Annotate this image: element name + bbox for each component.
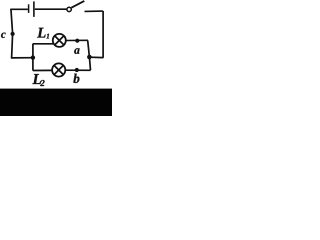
label L2 bbox=[32, 74, 41, 84]
label a bbox=[74, 48, 79, 54]
wire left vertical bbox=[11, 9, 13, 59]
wire lamp L2 to node b bbox=[66, 69, 91, 71]
lamp L1 bbox=[53, 34, 66, 47]
wire top-left horizontal bbox=[11, 8, 28, 10]
wire switch contact to top-right corner bbox=[85, 10, 103, 12]
node junction left bbox=[31, 55, 35, 59]
wire to lamp L2 bbox=[33, 69, 52, 71]
wire junction column vertical bbox=[32, 44, 34, 71]
battery cell tall plate bbox=[33, 1, 35, 17]
wire bottom-left horizontal bbox=[11, 57, 33, 59]
wire battery to switch bbox=[35, 8, 67, 10]
node b bbox=[75, 68, 79, 72]
label L1 bbox=[37, 28, 45, 38]
black bar bbox=[0, 89, 112, 116]
switch blade bbox=[71, 1, 84, 8]
wire inner right vertical bbox=[88, 40, 91, 70]
label c bbox=[1, 33, 6, 38]
wire right jog horizontal bbox=[89, 56, 103, 58]
label b bbox=[73, 74, 79, 83]
wire right vertical bbox=[102, 11, 104, 58]
switch pivot circle bbox=[67, 7, 71, 11]
node a bbox=[75, 39, 79, 43]
node junction right bbox=[87, 55, 92, 60]
lamp L2 bbox=[52, 63, 65, 76]
battery cell short plate bbox=[28, 4, 30, 13]
wire to lamp L1 bbox=[33, 43, 54, 45]
wire lamp L1 to node a bbox=[66, 39, 88, 41]
node c bbox=[11, 32, 15, 36]
